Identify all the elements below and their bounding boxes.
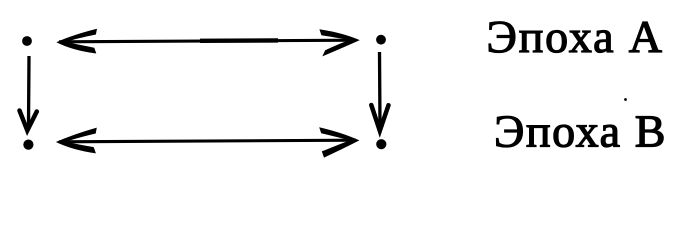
node dot top-right <box>376 35 386 45</box>
wire: right vertical arrow shaft <box>378 52 382 126</box>
arrowhead left of bottom arrow <box>56 128 97 154</box>
arrowhead right of top arrow <box>319 29 359 56</box>
node dot top-left <box>22 36 32 46</box>
wire: left vertical arrow shaft <box>27 56 31 126</box>
speck artifact <box>624 98 627 101</box>
node dot bottom-right <box>376 139 386 149</box>
arrowhead of left vertical arrow <box>20 111 37 131</box>
wire: bottom horizontal double-arrow shaft <box>59 140 356 142</box>
svg-text:Эпоха А: Эпоха А <box>487 11 664 62</box>
wire: top horizontal double-arrow shaft <box>59 40 356 42</box>
node dot bottom-left <box>23 140 33 150</box>
arrowhead left of top arrow <box>56 29 97 54</box>
wire: top shaft thick scan blotch <box>200 38 278 43</box>
arrowhead of right vertical arrow <box>371 105 388 131</box>
svg-text:Эпоха В: Эпоха В <box>494 106 667 157</box>
arrowhead right of bottom arrow <box>319 127 359 157</box>
